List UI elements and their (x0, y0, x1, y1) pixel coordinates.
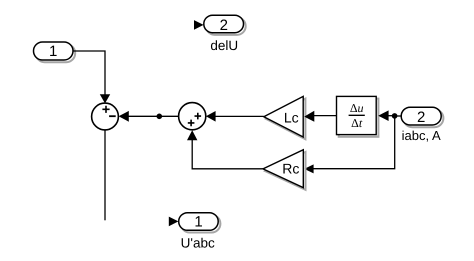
derivative block shadow (339, 99, 379, 137)
U1 minus sign (109, 115, 116, 117)
svg-text:Lc: Lc (284, 110, 299, 126)
svg-text:2: 2 (220, 17, 228, 34)
junction node between sums (157, 114, 163, 120)
outport U'abc shadow (181, 215, 221, 233)
wire junction down to Rc (314, 116, 395, 169)
wire inport 2 to junction (395, 115, 402, 117)
outport delU arrowhead (194, 20, 204, 30)
sum block U2 (++) (179, 103, 206, 130)
arrowhead into sum U1 top (100, 94, 110, 103)
gain Lc shadow (266, 99, 305, 140)
arrowhead into Rc base (304, 164, 313, 173)
outport U'abc arrowhead (169, 217, 179, 227)
arrowhead into sum U2 bottom (187, 130, 197, 140)
svg-text:delU: delU (210, 38, 238, 53)
U2 plus sign right (195, 113, 202, 120)
arrowhead into sum U1 right (119, 111, 129, 122)
gain block Lc (264, 96, 303, 137)
svg-text:2: 2 (417, 109, 425, 126)
svg-text:Δu: Δu (350, 101, 364, 115)
U1 plus sign (102, 106, 109, 113)
outport delU oval (204, 15, 244, 33)
wire inport 2 junction to du/dt (388, 115, 395, 117)
wire sum U2 output to sum U1 (128, 115, 179, 117)
svg-text:Δt: Δt (351, 116, 363, 130)
gain block Rc (263, 150, 303, 188)
arrowhead into du/dt right (378, 110, 388, 121)
sum U1 output wire down (104, 130, 106, 220)
wire from inport 1 to sum U1 (73, 51, 105, 95)
inport 2 shadow (403, 109, 443, 127)
inport 1 shadow (36, 44, 75, 62)
fraction bar (349, 114, 365, 116)
svg-text:U'abc: U'abc (181, 235, 215, 250)
sum block U1 (+-) (92, 103, 119, 130)
inport 1 oval (34, 42, 74, 60)
gain Rc shadow (265, 152, 305, 190)
svg-text:1: 1 (194, 213, 202, 230)
svg-text:1: 1 (49, 43, 57, 60)
wire Lc output to sum U2 (215, 115, 264, 117)
svg-text:Rc: Rc (282, 161, 299, 177)
derivative block du/dt (337, 96, 377, 134)
wire du/dt block to Lc (314, 115, 337, 117)
junction node at inport 2 (392, 113, 398, 119)
outport U'abc oval (179, 213, 219, 231)
outport delU shadow (206, 17, 246, 35)
U2 plus sign bottom-left (188, 120, 195, 127)
inport 2 oval (401, 107, 441, 125)
wire Rc output to sum U2 bottom (192, 140, 263, 169)
arrowhead into Lc base (304, 111, 314, 122)
arrowhead into sum U2 right (206, 111, 216, 122)
svg-text:iabc, A: iabc, A (402, 128, 441, 143)
